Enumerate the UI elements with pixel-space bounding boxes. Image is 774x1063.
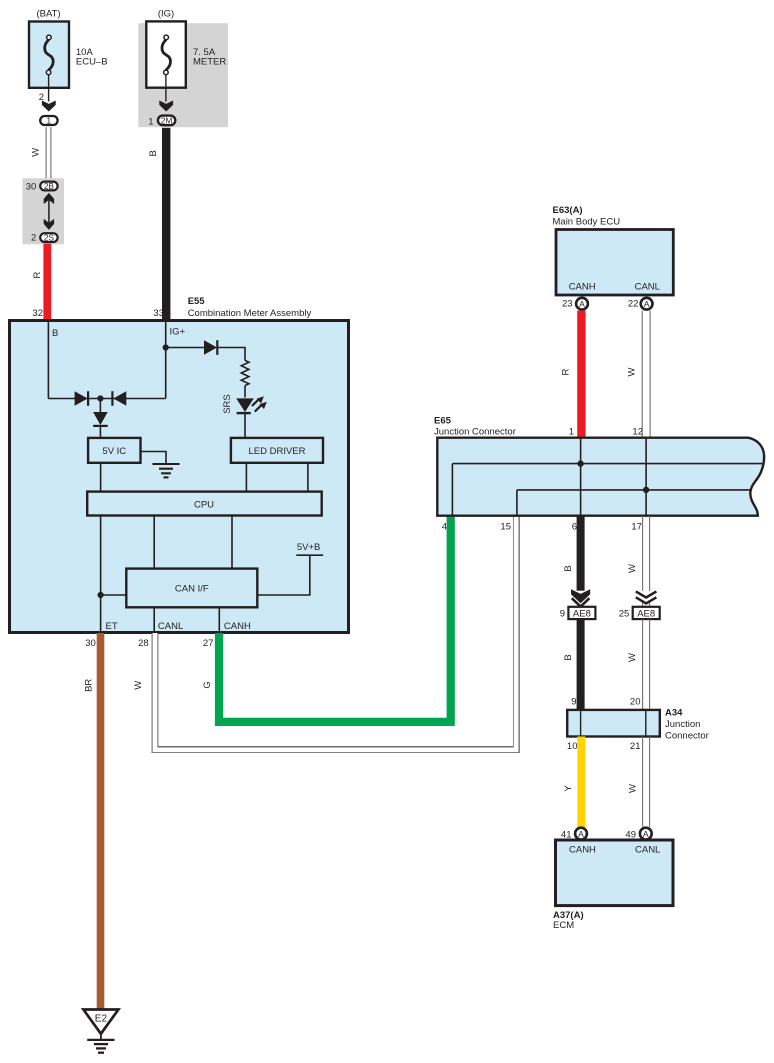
- pin 21 label: [630, 741, 641, 752]
- pin 25 label: [619, 609, 630, 620]
- pin 30 label: [85, 638, 96, 649]
- value label 7.5A METER: [193, 47, 226, 68]
- wire B (black) E65 pin6 to AE8: [577, 516, 585, 591]
- node E65 CANL junction: [643, 487, 649, 493]
- svg-text:A: A: [644, 299, 650, 309]
- svg-text:12: 12: [632, 427, 643, 438]
- wire color label W: [133, 681, 144, 690]
- wire 5V IC to CPU: [100, 463, 102, 492]
- ground internal: [152, 464, 179, 477]
- svg-text:CANL: CANL: [635, 845, 660, 856]
- svg-text:32: 32: [32, 308, 43, 319]
- connector pair arrows 2B-2S: [44, 193, 54, 230]
- pin 6 label: [572, 522, 577, 533]
- node diode junction: [97, 395, 103, 401]
- svg-text:5V IC: 5V IC: [102, 446, 126, 457]
- label SRS: [222, 394, 233, 414]
- label (IG): [158, 9, 174, 20]
- svg-text:1: 1: [148, 116, 153, 127]
- block CPU: [87, 492, 322, 516]
- wire CAN IF to CANL pin: [153, 607, 155, 633]
- pin 1 label: [569, 427, 574, 438]
- node junction IG+: [163, 344, 169, 350]
- wire color label W: [627, 653, 638, 662]
- connector 2S oval: [40, 233, 57, 242]
- svg-text:IG+: IG+: [170, 327, 186, 338]
- pin 33 label: [153, 308, 164, 319]
- svg-text:W: W: [133, 681, 144, 690]
- svg-text:33: 33: [153, 308, 164, 319]
- svg-text:A: A: [578, 829, 584, 839]
- svg-text:9: 9: [571, 697, 576, 708]
- svg-text:B: B: [563, 654, 574, 660]
- svg-text:1: 1: [47, 117, 52, 126]
- E65 Junction Connector box: [437, 438, 764, 516]
- pin name CANH: [224, 621, 251, 632]
- node IG+ label: [170, 327, 186, 338]
- svg-text:LED DRIVER: LED DRIVER: [248, 446, 305, 457]
- svg-text:W: W: [627, 653, 638, 662]
- wire IG+ to diode D4: [166, 347, 204, 349]
- svg-text:CANL: CANL: [635, 282, 660, 293]
- inline connector arrow left (solid): [571, 589, 590, 606]
- pin 2 label (2S): [31, 232, 36, 243]
- svg-text:B: B: [52, 328, 58, 339]
- wire LED DRIVER to CPU right: [307, 463, 309, 492]
- wire color label B: [148, 150, 159, 156]
- pin 30 label: [26, 181, 37, 192]
- pin 27 label: [203, 638, 214, 649]
- wire color label W: [626, 367, 637, 376]
- connector AE8 left: [568, 607, 595, 620]
- pin 22 connector A: [641, 298, 653, 310]
- pin 28 label: [138, 638, 149, 649]
- pin 41 label: [561, 830, 572, 841]
- svg-text:30: 30: [85, 638, 96, 649]
- svg-text:R: R: [32, 271, 43, 278]
- svg-text:E63(A): E63(A): [553, 205, 583, 216]
- wire G (green) E55 pin27 to E65 pin4: [219, 515, 451, 722]
- connector AE8 right: [633, 607, 660, 620]
- E65 internal wire pin4: [451, 464, 453, 516]
- E65 internal bus CANH: [452, 463, 762, 465]
- pin name ET: [106, 621, 118, 632]
- wire color label BR: [84, 679, 95, 692]
- block 5V IC: [88, 438, 140, 463]
- svg-text:CAN I/F: CAN I/F: [175, 584, 209, 595]
- wire W (white) E65 pin17 to AE8: [643, 516, 650, 591]
- svg-text:Connector: Connector: [665, 731, 709, 742]
- connector shading IG fuse block: [138, 23, 228, 127]
- E55 header: [188, 296, 312, 319]
- diode D2: [112, 391, 126, 406]
- resistor R1: [241, 360, 249, 385]
- svg-text:AE8: AE8: [637, 608, 655, 619]
- wire R (red) E63 CANH to E65 pin1: [577, 311, 585, 438]
- wire 5V IC to ground: [141, 452, 167, 465]
- wire junction to diode D3: [99, 399, 101, 413]
- wire R (red) 2S to E55 pin 32: [43, 244, 51, 321]
- wire W (white) connector 1 to 2B: [46, 127, 51, 178]
- wire CPU to ET: [100, 516, 102, 634]
- svg-text:25: 25: [619, 609, 630, 620]
- pin name CANL: [635, 845, 660, 856]
- svg-text:W: W: [627, 564, 638, 573]
- svg-text:A34: A34: [665, 708, 683, 719]
- wire fuse to connector 1: [48, 75, 50, 102]
- block CAN I/F: [126, 569, 257, 608]
- svg-text:E65: E65: [434, 416, 452, 427]
- value label 10A ECU-B: [76, 47, 108, 68]
- svg-text:Combination Meter Assembly: Combination Meter Assembly: [188, 308, 312, 319]
- wire W (white) A34 pin21 to ECM pin49: [643, 737, 650, 827]
- arrowhead down: [42, 101, 56, 112]
- svg-text:9: 9: [560, 609, 565, 620]
- pin 2 label: [39, 92, 44, 103]
- pin 15 label: [500, 522, 511, 533]
- E63 header: [553, 205, 621, 228]
- fuse F1 10A ECU-B: [29, 22, 69, 88]
- wire LED DRIVER to CPU left: [245, 463, 247, 492]
- A37 ECM box: [556, 840, 674, 906]
- pin 10 label: [567, 741, 578, 752]
- svg-text:R: R: [561, 368, 572, 375]
- svg-text:Y: Y: [563, 785, 574, 792]
- svg-text:ECM: ECM: [553, 920, 574, 931]
- pin 9 label: [560, 609, 565, 620]
- svg-text:2M: 2M: [161, 117, 173, 126]
- svg-text:CANH: CANH: [569, 282, 596, 293]
- wire color label R: [561, 368, 572, 375]
- A34 Junction Connector box: [567, 710, 660, 737]
- svg-text:4: 4: [442, 522, 447, 533]
- wire B (black) AE8 to A34 pin9: [577, 619, 585, 710]
- pin 12 label: [632, 427, 643, 438]
- connector 2B oval: [40, 182, 57, 191]
- wire color label G: [202, 681, 213, 688]
- pin 22 label: [628, 299, 639, 310]
- connector 1 oval: [40, 116, 57, 126]
- pin 17 label: [631, 522, 642, 533]
- svg-text:Main Body ECU: Main Body ECU: [553, 217, 621, 228]
- wire color label R: [32, 271, 43, 278]
- label 5V+B: [297, 542, 321, 553]
- pin name CANL: [158, 621, 183, 632]
- wire Y (yellow) A34 pin10 to ECM pin41: [577, 737, 585, 827]
- pin 49 label: [625, 830, 636, 841]
- node E65 CANH junction: [577, 460, 583, 466]
- svg-text:10: 10: [567, 741, 578, 752]
- pin 49 connector A: [640, 828, 652, 840]
- wire 5V+B to CAN IF: [257, 555, 323, 595]
- pin name CANL: [635, 282, 660, 293]
- wire color label W: [627, 784, 638, 793]
- wire CAN IF to CANH pin: [218, 607, 220, 633]
- svg-text:ECU–B: ECU–B: [76, 57, 108, 68]
- svg-text:Junction Connector: Junction Connector: [434, 427, 516, 438]
- svg-text:G: G: [202, 681, 213, 688]
- svg-text:E2: E2: [95, 1013, 108, 1024]
- wire pin33 IG+ vertical: [165, 322, 167, 399]
- wire W (white) AE8 to A34 pin20: [643, 619, 650, 710]
- ground E2: [83, 1010, 118, 1053]
- svg-text:23: 23: [562, 299, 573, 310]
- wire fuse to connector 2M: [165, 75, 167, 102]
- svg-text:5V+B: 5V+B: [297, 542, 321, 553]
- wire color label B: [563, 654, 574, 660]
- pin 20 label A34: [630, 697, 641, 708]
- svg-text:21: 21: [630, 741, 641, 752]
- connector shading 2B/2S: [22, 178, 64, 244]
- A37 header: [553, 910, 584, 931]
- wire color label B: [563, 565, 574, 571]
- svg-text:METER: METER: [193, 57, 226, 68]
- wire BR (brown) ET to ground E2: [97, 633, 105, 1010]
- svg-text:E55: E55: [188, 296, 206, 307]
- svg-text:(IG): (IG): [158, 9, 174, 20]
- wire D4 to resistor: [217, 348, 245, 361]
- wire B (black) 2M to E55 pin 33: [162, 128, 170, 321]
- wire CPU to CAN IF left: [153, 516, 155, 569]
- pin 23 label: [562, 299, 573, 310]
- E65 internal bus CANL: [517, 489, 751, 491]
- svg-text:BR: BR: [84, 679, 95, 692]
- svg-text:22: 22: [628, 299, 639, 310]
- fuse F2 7.5A METER: [146, 21, 186, 87]
- label (BAT): [36, 9, 60, 20]
- svg-text:CANL: CANL: [158, 621, 183, 632]
- svg-text:17: 17: [631, 522, 642, 533]
- arrowhead down: [159, 101, 173, 112]
- connector 2M oval: [158, 116, 175, 126]
- wire W (white) E55 pin28 to E65 pin15: [155, 515, 516, 750]
- E65 internal wire pin15: [516, 490, 518, 516]
- svg-text:B: B: [563, 565, 574, 571]
- pin name CANH: [569, 282, 596, 293]
- svg-text:CANH: CANH: [224, 621, 251, 632]
- svg-text:(BAT): (BAT): [36, 9, 60, 20]
- E65 internal wire pin1-6: [580, 438, 582, 516]
- inline connector arrows right: [636, 591, 657, 606]
- diode D1: [75, 391, 89, 406]
- svg-text:15: 15: [500, 522, 511, 533]
- svg-text:A: A: [579, 299, 585, 309]
- wire CPU to CAN IF right: [231, 516, 233, 569]
- svg-text:SRS: SRS: [222, 394, 233, 414]
- wire LED to LED DRIVER: [244, 413, 246, 438]
- diode D4: [204, 340, 217, 355]
- pin 1 label: [148, 116, 153, 127]
- svg-text:2B: 2B: [44, 182, 55, 191]
- svg-text:1: 1: [569, 427, 574, 438]
- svg-text:B: B: [148, 150, 159, 156]
- svg-text:27: 27: [203, 638, 214, 649]
- svg-text:W: W: [626, 367, 637, 376]
- svg-text:28: 28: [138, 638, 149, 649]
- E65 header: [434, 416, 516, 438]
- svg-text:Junction: Junction: [665, 719, 700, 730]
- wire W (white) E63 CANL to E65 pin12: [642, 311, 650, 438]
- pin 4 label: [442, 522, 447, 533]
- wire color label Y: [563, 785, 574, 792]
- svg-text:2S: 2S: [44, 234, 55, 243]
- LED SRS: [236, 396, 267, 413]
- E63 Main Body ECU box: [556, 230, 673, 296]
- pin name CANH: [569, 845, 596, 856]
- wire color label W: [627, 564, 638, 573]
- block LED DRIVER: [231, 438, 323, 463]
- wire ET junction to CAN IF: [101, 594, 127, 596]
- pin 41 connector A: [575, 828, 587, 840]
- node ET junction: [98, 592, 104, 598]
- svg-text:ET: ET: [106, 621, 118, 632]
- svg-text:AE8: AE8: [573, 608, 591, 619]
- pin 32 label: [32, 308, 43, 319]
- svg-text:30: 30: [26, 181, 37, 192]
- E65 internal wire pin12-17: [645, 438, 647, 516]
- diode D3: [93, 412, 108, 426]
- wire color label W: [30, 148, 41, 157]
- E55 Combination Meter Assembly box: [10, 321, 349, 633]
- node B label: [52, 328, 58, 339]
- svg-text:A: A: [643, 829, 649, 839]
- A34 header: [665, 708, 709, 742]
- pin 9 label A34: [571, 697, 576, 708]
- wire pin32 to diode row: [47, 322, 49, 399]
- svg-text:CANH: CANH: [569, 845, 596, 856]
- svg-text:2: 2: [31, 232, 36, 243]
- wire resistor to LED: [244, 386, 246, 398]
- svg-text:W: W: [30, 148, 41, 157]
- wire D3 to 5V IC: [99, 426, 101, 438]
- pin 23 connector A: [576, 298, 588, 310]
- svg-text:W: W: [627, 784, 638, 793]
- wire diode row horizontal: [48, 398, 165, 400]
- svg-text:CPU: CPU: [194, 500, 214, 511]
- svg-text:20: 20: [630, 697, 641, 708]
- svg-text:6: 6: [572, 522, 577, 533]
